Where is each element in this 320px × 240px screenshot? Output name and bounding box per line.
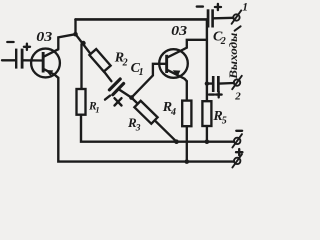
label plus sign of input capacitor xyxy=(24,44,30,50)
svg-text:2: 2 xyxy=(122,57,128,68)
node B junction dot xyxy=(81,41,86,46)
wire base lead of transistor Q1 xyxy=(24,59,42,62)
output terminal 2 xyxy=(232,76,242,89)
wire from C1 to node C xyxy=(118,89,131,98)
capacitor C3 plates xyxy=(212,76,220,92)
svg-text:1: 1 xyxy=(242,1,248,13)
svg-text:03: 03 xyxy=(36,30,52,45)
capacitor C1 plate 2 xyxy=(113,84,124,95)
svg-text:5: 5 xyxy=(222,116,227,127)
wire collector line to C3 xyxy=(207,82,212,84)
wire C3 to output terminal 2 xyxy=(220,82,234,85)
svg-text:Выходы: Выходы xyxy=(228,33,240,80)
node A junction dot xyxy=(73,32,78,37)
wire collector vertical line down to R5 xyxy=(206,19,208,101)
transistor Q1 collector line inside circle xyxy=(44,49,58,56)
label plus sign of C1 (rotated as x) xyxy=(115,98,122,105)
label minus sign of C2 xyxy=(197,5,203,7)
junction dot R4 to plus rail xyxy=(185,159,190,164)
wire R4 bottom crossing minus rail down to plus rail xyxy=(186,126,188,161)
resistor R1 body xyxy=(77,89,86,115)
transistor Q2 emitter line inside circle xyxy=(168,70,187,81)
label R2 xyxy=(114,51,128,69)
resistor R4 body xyxy=(182,101,191,127)
wire top rail xyxy=(76,18,207,21)
label plus sign of C2 xyxy=(215,4,221,10)
transistor Q1 circle xyxy=(31,49,60,78)
wire node A up to top rail xyxy=(74,19,76,34)
label plus sign of supply terminal xyxy=(236,149,242,155)
wire Q2 emitter down to R4 xyxy=(186,81,188,100)
label minus sign of C3 xyxy=(209,93,214,95)
node C junction dot xyxy=(129,95,134,100)
wire R1 bottom to minus rail xyxy=(81,115,234,142)
label C2 xyxy=(213,29,226,47)
wire R5 bottom to minus rail xyxy=(206,126,208,142)
transistor Q1 emitter line inside circle xyxy=(44,69,58,78)
resistor R3 body (diagonal) xyxy=(134,101,157,124)
svg-text:3: 3 xyxy=(135,124,141,134)
svg-text:1: 1 xyxy=(95,104,99,114)
label minus sign of supply terminal xyxy=(236,130,242,132)
transistor Q1 emitter arrow (PNP) xyxy=(45,70,53,76)
transistor Q2 circle xyxy=(159,49,188,78)
output terminal 1 xyxy=(232,10,242,23)
wire diagonal from node A to capacitor C1 xyxy=(76,34,112,81)
transistor Q2 base bar xyxy=(165,55,168,73)
label minus sign of C1 (rotated) xyxy=(105,96,110,100)
svg-text:2: 2 xyxy=(220,36,226,47)
resistor R5 body xyxy=(202,101,211,126)
label R3 xyxy=(127,115,141,134)
svg-text:4: 4 xyxy=(170,107,176,118)
wire node C diagonal up to base of Q2 xyxy=(132,64,166,98)
wire Q2 collector up and over to collector vertical xyxy=(184,40,207,49)
wire node C diagonal down through R3 to minus rail xyxy=(132,98,177,142)
label R4 xyxy=(162,100,176,118)
svg-text:2: 2 xyxy=(234,91,241,103)
wire input lead left of C-in xyxy=(2,59,16,61)
capacitor C2 plates xyxy=(207,9,214,27)
junction dot C3 tap on collector line xyxy=(205,81,209,85)
junction dot R3 to minus rail xyxy=(174,139,179,144)
wire C2 to output terminal 1 xyxy=(214,17,233,20)
supply terminal plus xyxy=(232,154,242,167)
svg-text:1: 1 xyxy=(139,67,144,78)
transistor Q2 emitter arrow (PNP) xyxy=(173,70,181,76)
transistor Q1 base bar xyxy=(42,52,45,73)
stray dash below terminal 1 xyxy=(235,26,241,30)
label R1 xyxy=(88,101,100,115)
capacitor C1 plate 1 xyxy=(109,79,120,90)
capacitor C-in (input electrolytic) plates xyxy=(15,49,24,69)
label plus sign of C3 xyxy=(216,92,222,98)
resistor R2 body (diagonal) xyxy=(89,49,110,72)
supply terminal minus xyxy=(232,134,242,147)
wire Q1 emitter down and plus rail xyxy=(58,78,234,162)
transistor Q2 collector line inside circle xyxy=(168,49,184,57)
wire Q1 collector up to node A xyxy=(58,34,75,49)
label minus sign of input capacitor xyxy=(7,41,13,43)
wire R1 top lead from node B xyxy=(80,44,82,89)
svg-text:03: 03 xyxy=(171,24,187,39)
label C1 xyxy=(131,61,144,78)
junction dot R5 to minus rail xyxy=(205,139,210,144)
label R5 xyxy=(212,109,226,127)
